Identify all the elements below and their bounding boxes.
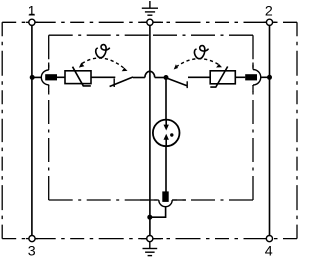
left switch fixed-contact tick	[113, 78, 115, 87]
svg-text:1: 1	[28, 3, 36, 19]
svg-text:2: 2	[265, 3, 273, 19]
wire: crossover to centre junction	[155, 77, 166, 79]
node: junction on PE conductor	[147, 215, 152, 220]
svg-text:4: 4	[265, 244, 273, 260]
wire: right disconnect device to right junction	[261, 76, 270, 78]
arrowhead: left arc to left switch	[122, 68, 128, 72]
boundary bump arc around right disconnect device	[253, 70, 261, 86]
wire: left switch to crossover	[133, 77, 145, 79]
wire: right vertical from terminal 2 to terminal 4	[269, 25, 271, 235]
varistor RV1 (left)	[65, 67, 91, 86]
right switch fixed-contact tick	[186, 81, 188, 88]
terminal 4 label	[265, 244, 273, 260]
left switch blade (open, thermal disconnector)	[110, 77, 133, 87]
wire: disconnect device to varistor RV1	[56, 76, 65, 78]
wire: spark gap down to trigger element	[165, 146, 167, 191]
boundary bump arc around left disconnect device	[41, 70, 48, 85]
wire: varistor RV1 to left switch contact	[91, 76, 115, 78]
thermal disconnect device (left, filled block)	[45, 74, 57, 80]
boundary bump arc around bottom trigger element	[159, 200, 172, 207]
PE terminal (bottom)	[147, 236, 153, 242]
terminal 1 label	[28, 3, 36, 19]
varistor RV2 (right)	[210, 67, 235, 88]
right switch blade (open, thermal disconnector)	[167, 78, 188, 86]
terminal 2 label	[265, 3, 273, 19]
spark gap electrode arrow (top, pointing down)	[165, 120, 167, 125]
wire: junction to left disconnect device	[32, 76, 41, 78]
ground symbol (top PE)	[142, 1, 158, 15]
temperature symbol theta (left)	[96, 45, 110, 58]
terminal 3 label	[28, 244, 36, 260]
PE terminal (top)	[147, 19, 153, 25]
dashed thermal coupling arc (right)	[176, 59, 220, 67]
terminal 1	[29, 19, 35, 25]
arrowhead: left arc to varistor RV1	[79, 63, 84, 68]
arrowhead: right arc to centre junction	[174, 64, 178, 69]
outer device boundary (dash-dot frame)	[2, 22, 297, 238]
spark gap electrode arrow (bottom, pointing up)	[165, 139, 167, 146]
node: junction on right wire	[267, 75, 272, 80]
wire: centre junction down to spark gap	[165, 78, 167, 120]
terminal 2	[266, 19, 272, 25]
arrowhead: right arc to varistor RV2	[216, 64, 222, 68]
svg-text:3: 3	[28, 244, 36, 260]
crossover hop over PE conductor (no connection)	[145, 71, 155, 77]
spark gap trigger dot	[170, 133, 173, 136]
node: junction on left wire	[30, 75, 35, 80]
wire: right switch to varistor RV2	[188, 76, 210, 78]
inner protection-circuit boundary (dash-dot box)	[49, 35, 253, 200]
temperature symbol theta (right)	[194, 46, 208, 59]
triggered spark gap F1 (circle)	[153, 120, 180, 147]
dashed thermal coupling arc (left)	[82, 58, 125, 69]
wire: centre PE conductor from top PE terminal to bottom PE terminal	[149, 25, 151, 235]
solid inner-border segments adjacent to bump arcs	[49, 63, 253, 201]
wire: trigger element down and left to PE conductor	[150, 207, 166, 218]
wire: varistor RV2 to right disconnect device	[235, 76, 245, 78]
ground symbol (bottom PE)	[143, 242, 158, 256]
wire: left vertical from terminal 1 to terminal 3	[31, 25, 33, 235]
trigger element / bottom disconnect (filled block)	[162, 191, 168, 202]
node: centre junction above spark gap	[164, 75, 169, 80]
terminal 3	[29, 236, 35, 242]
thermal disconnect device (right, filled block)	[245, 74, 257, 80]
solid border segments at terminal circles	[26, 22, 276, 238]
terminal 4	[266, 236, 272, 242]
